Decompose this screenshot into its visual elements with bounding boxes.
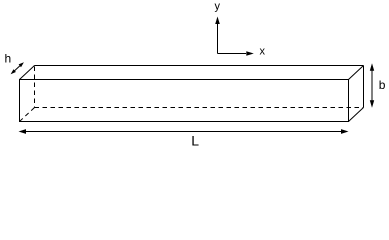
wire hidden bottom-left oblique edge C-C' (dashed) [20,108,35,122]
beam front face [20,80,349,122]
axis y [217,24,219,54]
dimension arrow h (double-headed diagonal) [14,65,21,72]
wire bottom-right oblique edge D-D' [349,108,364,122]
svg-text:L: L [191,133,199,149]
svg-text:y: y [215,1,221,13]
svg-text:b: b [379,78,386,92]
wire hidden back bottom edge C'-D' (dashed) [35,107,364,109]
axis x [218,53,247,55]
dimension arrow L (horizontal double-headed) [25,131,342,133]
svg-text:h: h [5,52,12,66]
wire back right vertical edge B'-D' [363,66,365,108]
dimension arrow b (vertical double-headed) [371,70,373,101]
wire top-left oblique edge A-A' [20,66,35,80]
wire back top edge A'-B' [35,65,364,67]
wire hidden back-left vertical edge A'-C' (dashed) [34,67,36,108]
wire top-right oblique edge B-B' [349,66,364,80]
svg-text:x: x [260,46,266,58]
